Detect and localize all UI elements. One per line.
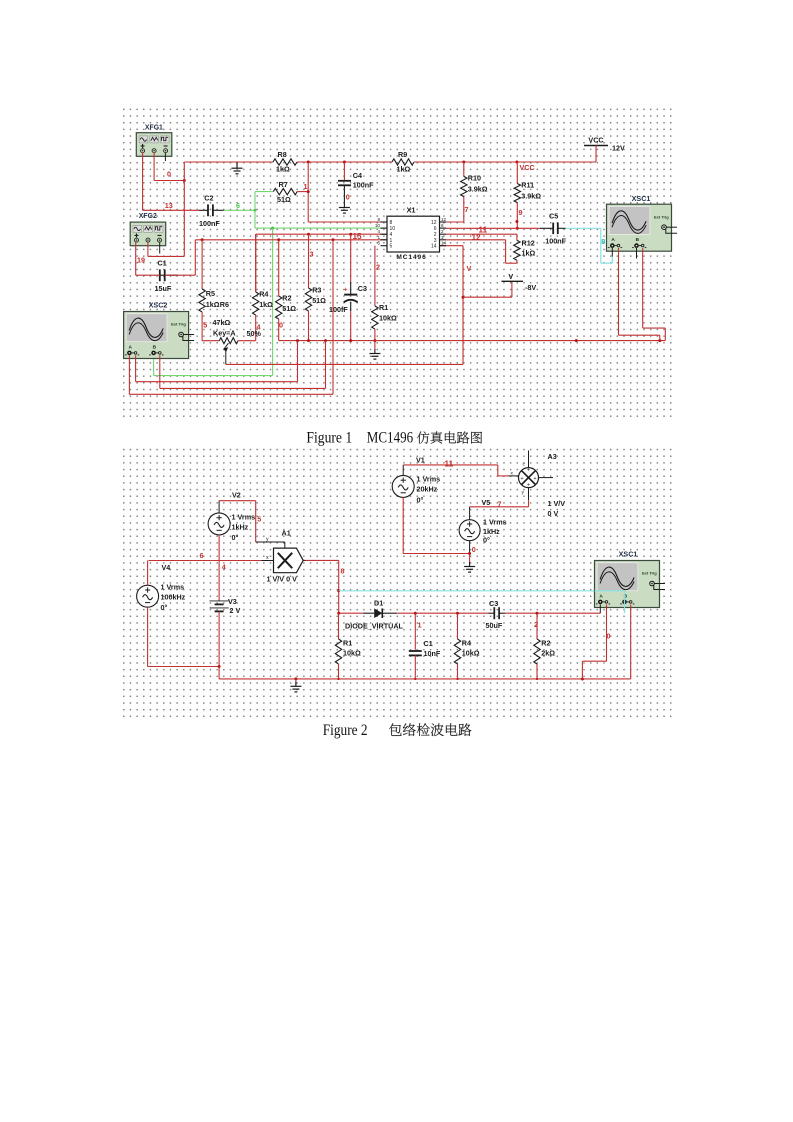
figure 1 schematic grid background	[120, 105, 675, 421]
svg-text:C5: C5	[549, 212, 558, 221]
svg-text:DIODE_VIRTUAL: DIODE_VIRTUAL	[345, 622, 404, 631]
svg-text:9: 9	[519, 208, 523, 217]
svg-text:3: 3	[441, 235, 444, 240]
wire XSC2 A minus row	[136, 381, 298, 383]
wire C1 right red	[165, 274, 196, 276]
wire A1 y stub down	[284, 542, 286, 548]
svg-text:3.9kΩ: 3.9kΩ	[468, 185, 488, 194]
svg-text:V: V	[467, 264, 472, 273]
svg-text:0: 0	[472, 545, 476, 554]
wire corner down to ground bus fig2	[218, 667, 220, 679]
svg-text:0°: 0°	[483, 536, 490, 545]
junction V3 V4	[218, 665, 221, 668]
wire XFG1 com to vertical	[154, 180, 184, 182]
svg-text:10kΩ: 10kΩ	[462, 649, 480, 658]
VCC power symbol	[584, 136, 608, 163]
svg-text:R1: R1	[379, 303, 388, 312]
junction C3 pin4 row	[349, 233, 352, 236]
wire C3 to XSC1 A	[505, 612, 600, 614]
resistor R2 mid	[276, 240, 282, 341]
svg-text:+: +	[527, 468, 530, 474]
svg-text:1 Vrms: 1 Vrms	[417, 475, 441, 484]
svg-text:5: 5	[390, 244, 393, 250]
wire A3 output stub	[539, 477, 554, 479]
svg-text:B: B	[153, 345, 157, 351]
svg-text:C3: C3	[489, 599, 498, 608]
svg-text:A: A	[128, 345, 132, 351]
ground G3 under R1	[374, 349, 376, 354]
svg-text:1: 1	[418, 621, 422, 630]
svg-text:7: 7	[465, 205, 469, 214]
wire V5 bottom stub	[469, 541, 471, 554]
wire net13 to C2	[143, 209, 199, 211]
svg-text:R4: R4	[259, 290, 268, 299]
resistor R11	[514, 162, 520, 228]
svg-text:R6: R6	[220, 300, 229, 309]
svg-text:11: 11	[445, 460, 454, 469]
svg-text:A1: A1	[282, 529, 291, 538]
resistor R2 fig2	[534, 613, 540, 679]
junction V5 ground	[468, 552, 471, 555]
wire R4 top vertical	[255, 234, 257, 292]
junction A- on bus	[296, 339, 299, 342]
svg-text:1: 1	[377, 235, 380, 240]
wire A1 output	[303, 559, 305, 561]
wire net0 vertical trunk x=184	[183, 162, 185, 256]
multiplier A3	[519, 468, 539, 489]
junction R1 ground bus	[373, 339, 376, 342]
wire net1 vertical	[307, 162, 309, 222]
svg-text:V2: V2	[232, 491, 241, 500]
chip left pin 5 stub	[381, 245, 388, 247]
svg-text:51Ω: 51Ω	[312, 296, 326, 305]
wire V1 bottom down	[402, 497, 404, 553]
svg-text:8: 8	[377, 217, 380, 222]
wire XFG2 com down	[147, 242, 149, 256]
green junction dot	[254, 209, 257, 212]
junction A+ vertical pin1 row	[332, 238, 335, 241]
junction diode row left	[337, 612, 340, 615]
wire XFG2 plus to C1	[135, 242, 137, 275]
wire V4 bottom down	[147, 607, 149, 666]
resistor R9	[392, 159, 414, 165]
svg-text:4: 4	[222, 563, 226, 572]
svg-text:R9: R9	[398, 150, 407, 159]
chip right pin 6 stub	[440, 227, 447, 229]
junction net1 on bus	[307, 161, 310, 164]
wire V2 top stub	[218, 501, 220, 513]
junction R1 bus fig2	[337, 678, 339, 680]
wire V2 bottom down to V3	[218, 535, 220, 601]
wire pin2 corner down to R12	[516, 234, 518, 240]
svg-text:4: 4	[377, 229, 380, 234]
wire x row net6 from V4	[149, 560, 262, 562]
junction R3 pin4 row	[307, 233, 310, 236]
svg-text:R11: R11	[521, 181, 534, 190]
chip left pin 4 stub	[381, 233, 388, 235]
svg-text:R7: R7	[279, 180, 288, 189]
chip right pin 2 stub	[440, 233, 447, 235]
resistor R1 fig1	[372, 246, 378, 349]
resistor R3	[305, 234, 311, 340]
resistor R4 mid	[253, 234, 259, 341]
svg-text:5: 5	[203, 321, 207, 330]
wire green vertical to XSC2 B	[272, 228, 274, 376]
wire cyan overlay through scope	[595, 590, 625, 592]
resistor R1 fig2	[335, 613, 341, 679]
svg-text:C4: C4	[353, 171, 362, 180]
svg-text:VCC: VCC	[520, 163, 535, 172]
svg-text:0: 0	[607, 632, 611, 641]
svg-text:C3: C3	[358, 284, 367, 293]
svg-text:10nF: 10nF	[424, 649, 441, 658]
svg-text:XFG1: XFG1	[145, 125, 163, 132]
svg-text:1kHz: 1kHz	[232, 523, 249, 532]
wire to A3 x input	[498, 475, 509, 477]
wire green to R7 left	[255, 191, 273, 193]
svg-text:2: 2	[441, 229, 444, 234]
resistor R4 fig2	[454, 613, 460, 679]
svg-text:100nF: 100nF	[353, 181, 374, 190]
svg-text:A: A	[599, 594, 603, 600]
wire green C2 to junction	[224, 209, 255, 211]
capacitor C3 fig1 electrolytic	[344, 234, 358, 340]
svg-text:0°: 0°	[232, 533, 239, 542]
svg-text:1kΩ: 1kΩ	[206, 300, 220, 309]
wire XFG1 plus terminal down to net 13 row	[142, 153, 144, 211]
svg-text:1kΩ: 1kΩ	[522, 249, 536, 258]
wire VCC bus R8 to R9	[297, 161, 392, 163]
svg-text:100kHz: 100kHz	[161, 593, 186, 602]
wire cyan down	[600, 228, 602, 263]
wire XSC1 fig2 A minus step	[606, 605, 608, 662]
svg-text:19: 19	[137, 256, 145, 265]
junction R5 pin1 row	[201, 238, 204, 241]
svg-text:R2: R2	[282, 294, 291, 303]
svg-text:R8: R8	[278, 150, 287, 159]
wire cyan overlay down to B terminal	[624, 591, 626, 613]
svg-text:50uF: 50uF	[486, 621, 503, 630]
floating junction dot R11	[515, 220, 518, 223]
wire to A1 y input	[256, 541, 285, 543]
svg-text:X1: X1	[406, 206, 415, 215]
oscilloscope XSC2	[124, 301, 195, 359]
svg-text:1 V/V 0 V: 1 V/V 0 V	[267, 575, 298, 584]
svg-text:14: 14	[441, 241, 447, 246]
svg-text:1 Vrms: 1 Vrms	[161, 583, 185, 592]
wire output down to diode row	[338, 560, 340, 613]
junction R11 pin6 row	[516, 227, 519, 230]
svg-text:12: 12	[441, 217, 447, 222]
junction cyan takeoff	[337, 589, 340, 592]
wire cyan C5 to XSC1	[566, 227, 601, 229]
capacitor C4	[338, 162, 351, 203]
svg-text:C1: C1	[424, 639, 433, 648]
svg-text:15uF: 15uF	[155, 284, 172, 293]
chip left pin 8 stub	[381, 221, 388, 223]
svg-text:0 V: 0 V	[548, 509, 559, 518]
wire V1 bottom row	[403, 553, 469, 555]
potentiometer R6 47k	[202, 338, 256, 365]
ground G4 center fig2	[295, 679, 297, 686]
svg-text:12: 12	[472, 233, 482, 242]
junction R10 top	[462, 161, 465, 164]
svg-text:0°: 0°	[417, 496, 424, 505]
junction R11 top	[515, 161, 518, 164]
source V1	[392, 475, 414, 497]
wire V2 top to right	[219, 500, 256, 502]
svg-text:V5: V5	[482, 498, 491, 507]
svg-text:R12: R12	[522, 239, 535, 248]
junction R3 bus	[307, 339, 310, 342]
diode D1	[363, 608, 397, 618]
svg-text:1 Vrms: 1 Vrms	[483, 518, 507, 527]
wire wiper row to pin14 vertical	[226, 363, 463, 365]
junction R2 bus fig2	[536, 678, 538, 680]
svg-text:1kΩ: 1kΩ	[397, 165, 411, 174]
svg-text:8: 8	[390, 220, 393, 226]
svg-text:Figure 2: Figure 2	[323, 722, 368, 739]
wire XSC2 A minus down	[135, 355, 137, 381]
resistor R8	[273, 159, 297, 165]
junction R2 pin1 row	[277, 238, 280, 241]
wire XSC1 B minus down	[642, 248, 644, 328]
svg-text:100nF: 100nF	[545, 237, 566, 246]
svg-text:2 V: 2 V	[230, 606, 241, 615]
wire VCC bus R9 to VCC symbol	[414, 161, 596, 163]
svg-text:+: +	[520, 476, 523, 482]
capacitor C2	[199, 204, 224, 216]
wire V1 top stub	[402, 465, 404, 476]
svg-text:3: 3	[310, 250, 314, 259]
wire green row to XSC2 B plus	[154, 375, 273, 377]
function generator XFG2	[130, 213, 166, 246]
wire diode to C3	[397, 612, 489, 614]
svg-text:MC1496: MC1496	[396, 254, 426, 261]
oscilloscope XSC1	[595, 550, 666, 608]
svg-text:6: 6	[441, 223, 444, 228]
svg-text:100fF: 100fF	[329, 305, 348, 314]
ground G2 under C4	[343, 203, 345, 208]
wire green up to R7	[254, 192, 256, 211]
source V2	[208, 513, 230, 535]
svg-text:0°: 0°	[161, 603, 168, 612]
svg-text:2kΩ: 2kΩ	[541, 649, 555, 658]
svg-text:1: 1	[304, 182, 308, 191]
svg-text:1 V/V: 1 V/V	[548, 499, 566, 508]
capacitor C3 fig2 50uF	[489, 607, 506, 619]
svg-text:5: 5	[377, 241, 380, 246]
wire diode row red left	[339, 612, 364, 614]
svg-text:12: 12	[431, 220, 437, 226]
wire green down from junction to pin10 row	[254, 210, 256, 228]
junction C1 bus fig2	[414, 678, 416, 680]
svg-text:y: y	[266, 537, 269, 543]
chip right pin 14 stub	[440, 245, 447, 247]
wire XSC1 fig2 A plus stub	[599, 605, 601, 614]
svg-text:51Ω: 51Ω	[282, 304, 296, 313]
svg-text:V3: V3	[228, 597, 237, 606]
wire A3 y stub down	[528, 488, 530, 501]
wire XSC2 B plus stub green	[153, 358, 155, 376]
wire V4 bottom row	[148, 666, 220, 668]
wire net7 up to A3	[528, 500, 530, 507]
wire to ground stub fig2	[469, 554, 471, 564]
svg-text:5: 5	[257, 515, 261, 524]
svg-text:47kΩ: 47kΩ	[213, 318, 231, 327]
wire pin14 vertical	[462, 246, 464, 365]
svg-text:R1: R1	[343, 639, 352, 648]
wire V4 top to x row	[147, 561, 149, 586]
wire pin3 row	[446, 239, 506, 241]
svg-text:V4: V4	[162, 563, 171, 572]
wire XSC2 B minus down	[159, 355, 161, 388]
svg-text:Ext Trig: Ext Trig	[642, 571, 657, 576]
svg-text:20kHz: 20kHz	[417, 485, 438, 494]
junction at XFG1 com tee	[183, 179, 186, 182]
svg-text:Figure 1: Figure 1	[306, 430, 352, 447]
wire x row black lead	[261, 560, 273, 562]
resistor R5	[199, 240, 205, 341]
junction A- step bus fig2	[581, 678, 584, 681]
wire net5 down	[255, 501, 257, 542]
wire chip pin14 to vertical	[440, 245, 464, 247]
wire V5 top stub	[469, 507, 471, 520]
-8V supply symbol	[502, 272, 524, 281]
svg-text:V1: V1	[416, 456, 425, 465]
junction mystery bus	[575, 339, 578, 342]
capacitor C5	[540, 223, 566, 235]
svg-text:+: +	[533, 476, 536, 482]
svg-text:XSC2: XSC2	[149, 301, 168, 310]
svg-text:6: 6	[434, 226, 437, 232]
svg-text:D1: D1	[374, 599, 383, 608]
svg-text:Key=A: Key=A	[213, 329, 236, 338]
wire ground bus fig2	[219, 678, 631, 680]
svg-text:2: 2	[376, 263, 380, 272]
chip left pin 10 stub	[381, 227, 388, 229]
wire XSC1 fig2 B minus down	[630, 605, 632, 679]
svg-text:x: x	[266, 555, 269, 561]
chip right pin 3 stub	[440, 239, 447, 241]
wire net11 right	[403, 464, 498, 466]
resistor R7	[273, 188, 297, 194]
wire C1 right up corner	[194, 240, 196, 275]
chip right pin 12 stub	[440, 221, 447, 223]
svg-text:V: V	[508, 272, 513, 281]
svg-text:1kΩ: 1kΩ	[276, 165, 290, 174]
svg-text:6: 6	[236, 201, 240, 210]
wire A3 top stub	[528, 451, 530, 468]
wire V3 bottom down	[218, 611, 220, 666]
wire branch to -8V source	[463, 296, 512, 298]
wire XSC2 A plus down to row	[128, 355, 130, 394]
wire XFG2 minus stub	[159, 242, 161, 253]
svg-text:4: 4	[257, 323, 261, 332]
junction R7 net1	[307, 190, 310, 193]
svg-text:C2: C2	[204, 194, 213, 203]
wire net1 to chip pin8	[308, 221, 387, 223]
junction XSC1 A- bus	[658, 339, 661, 342]
svg-text:Ext Trig: Ext Trig	[654, 214, 669, 219]
wire R7 right to net1 vertical	[297, 191, 308, 193]
svg-text:XSC1: XSC1	[632, 194, 651, 203]
junction B- on bus	[324, 339, 327, 342]
svg-text:0: 0	[279, 321, 283, 330]
function generator XFG1	[136, 125, 172, 157]
svg-text:C1: C1	[158, 258, 167, 267]
wire green pin10 row	[255, 227, 387, 229]
svg-text:12V: 12V	[612, 144, 625, 153]
svg-text:R5: R5	[206, 289, 215, 298]
wire net7 row	[470, 506, 529, 508]
svg-text:MC1496: MC1496	[367, 430, 414, 447]
source V5	[459, 520, 480, 541]
ground G1 under top bus	[236, 162, 238, 168]
svg-text:R3: R3	[312, 286, 321, 295]
svg-text:-8V: -8V	[525, 283, 536, 292]
svg-text:10kΩ: 10kΩ	[379, 314, 397, 323]
capacitor C1	[160, 269, 178, 281]
junction R2 row	[536, 612, 539, 615]
ground G5 under V5	[469, 562, 471, 567]
wire XSC1 A plus stub	[611, 248, 613, 257]
wire pin6 row net11 to C5	[446, 227, 540, 229]
svg-text:1kΩ: 1kΩ	[259, 300, 273, 309]
op-amp chip X1 MC1496	[387, 216, 440, 252]
junction C3 bus	[349, 339, 352, 342]
svg-text:10: 10	[375, 223, 381, 228]
svg-text:R2: R2	[541, 639, 550, 648]
svg-text:10: 10	[390, 226, 396, 232]
figure 2 schematic grid background	[120, 448, 673, 718]
svg-text:13: 13	[165, 201, 173, 210]
svg-text:R4: R4	[462, 639, 471, 648]
source V4	[137, 585, 159, 607]
svg-text:7: 7	[498, 500, 502, 509]
wire cyan to A stub	[601, 262, 613, 264]
svg-text:51Ω: 51Ω	[277, 195, 291, 204]
wire XSC1 B plus stub	[636, 248, 638, 259]
svg-text:Ext Trig: Ext Trig	[171, 322, 186, 327]
svg-text:8: 8	[601, 237, 605, 246]
svg-text:A: A	[611, 237, 615, 243]
wire net11 down	[497, 465, 499, 476]
svg-text:1 Vrms: 1 Vrms	[232, 513, 256, 522]
wire net0 top bus to R8	[184, 161, 273, 163]
wire R10 bottom to pin12	[446, 221, 464, 223]
svg-text:B: B	[636, 237, 640, 243]
oscilloscope XSC1	[607, 194, 678, 251]
figure 2 caption	[323, 722, 472, 739]
svg-text:A3: A3	[548, 452, 557, 461]
junction R4 bus fig2	[456, 678, 458, 680]
svg-text:100nF: 100nF	[199, 219, 220, 228]
svg-text:0: 0	[167, 170, 171, 179]
wire ground bus fig1	[279, 340, 666, 342]
svg-text:10kΩ: 10kΩ	[343, 649, 361, 658]
wire XSC2 B minus row	[160, 387, 326, 389]
svg-text:R10: R10	[468, 174, 481, 183]
wire XSC1 A minus down	[618, 248, 620, 335]
svg-text:+: +	[344, 288, 348, 294]
multiplier A1	[274, 548, 304, 573]
wire A plus row up to pin1 row	[332, 240, 334, 394]
figure 1 caption	[306, 430, 482, 447]
svg-text:0: 0	[346, 193, 350, 202]
wire R12 bottom jog	[516, 260, 518, 263]
wire A3 x stub	[509, 475, 519, 477]
